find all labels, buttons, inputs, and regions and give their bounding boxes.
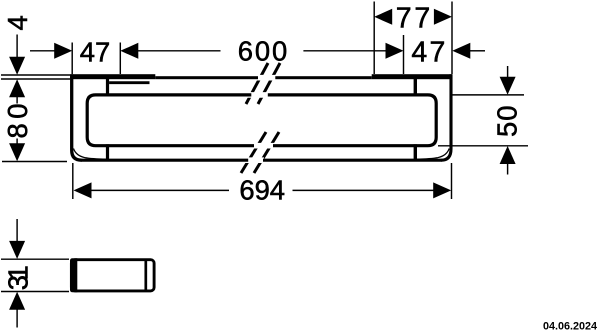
- extension line x403 (47 right): [403, 35, 405, 74]
- white corridor top bar: [254, 75, 276, 81]
- break slash bottom 2: [254, 132, 279, 173]
- side view outline: [71, 260, 154, 291]
- white corridor inner top: [247, 92, 269, 98]
- right bracket lower: [414, 144, 417, 160]
- svg-text:47: 47: [80, 37, 110, 68]
- arrow 80 down: [9, 143, 25, 161]
- dim line 47 right tail: [470, 50, 485, 52]
- svg-text:04.06.2024: 04.06.2024: [543, 320, 597, 332]
- extension line x452 (right end): [451, 2, 453, 75]
- right bracket upper: [414, 79, 417, 95]
- dim line 50 lower tail: [507, 163, 509, 174]
- extension line 694 left: [72, 163, 74, 199]
- svg-text:600: 600: [238, 35, 288, 66]
- right seam curve: [416, 149, 449, 160]
- top bar thin mid-left: [155, 76, 258, 79]
- top plate thick left: [70, 74, 155, 79]
- break slash top 1: [246, 63, 268, 104]
- svg-text:4: 4: [2, 15, 33, 30]
- extension line x374 (77 left): [373, 2, 375, 75]
- left seam curve: [74, 149, 107, 160]
- short ledge line left: [109, 81, 149, 84]
- dim line 31 lower tail: [16, 310, 18, 328]
- extension line 50 bottom: [438, 145, 528, 147]
- arrow 31 up: [9, 292, 25, 310]
- extension line 694 right: [451, 163, 453, 199]
- arrow 600 left: [120, 43, 138, 59]
- arrow 4 down: [9, 57, 25, 75]
- dim line 80 mid lower: [16, 139, 18, 145]
- extension line x120: [119, 43, 121, 75]
- extension line bottom left (80): [2, 161, 67, 163]
- dim line 600 left part: [138, 50, 221, 52]
- white corridor inner bottom: [250, 143, 274, 149]
- svg-text:31: 31: [3, 265, 34, 290]
- arrow 31 down: [9, 241, 25, 259]
- inner ring top edge right part: [268, 95, 436, 146]
- arrow 600 right: [386, 43, 404, 59]
- svg-text:50: 50: [491, 106, 522, 138]
- dim line 80 mid upper: [16, 97, 18, 104]
- arrow 50 down: [500, 77, 516, 95]
- arrow 694 right: [433, 182, 451, 198]
- extension line side view bottom: [1, 291, 69, 293]
- dim line 50 upper tail: [507, 66, 509, 78]
- arrow 694 left: [74, 182, 92, 198]
- inner ring top edge left part: [87, 95, 254, 146]
- side view seam line: [144, 260, 147, 291]
- outer bottom edge left part: [81, 159, 248, 162]
- side view wall plate thick left edge: [70, 258, 77, 292]
- dim line 47 left tail: [30, 50, 55, 52]
- outer right edge with corner: [442, 74, 452, 160]
- white corridor outer bottom: [244, 157, 264, 163]
- svg-text:694: 694: [239, 175, 285, 206]
- extension line side view top: [1, 258, 69, 260]
- arrow 77 left: [374, 9, 392, 25]
- outer bottom edge right part: [263, 159, 442, 162]
- arrow 4/80 up shared: [9, 79, 25, 97]
- dim line 694 left part: [90, 189, 229, 191]
- top bar thin mid-right: [275, 76, 371, 79]
- dim line 31 upper tail: [16, 219, 18, 242]
- top plate thick right: [372, 74, 453, 79]
- arrow 47L right: [54, 43, 72, 59]
- dim line 600 right part: [303, 50, 386, 52]
- extension line plate bottom left: [1, 78, 70, 80]
- dim line 694 right part: [293, 189, 434, 191]
- outer left edge with corner: [72, 74, 82, 160]
- arrow 47R left: [452, 43, 470, 59]
- break slash bottom 1: [241, 132, 266, 173]
- left bracket lower: [106, 144, 109, 161]
- extension line 50 top: [453, 94, 525, 96]
- arrow 77 right: [434, 9, 452, 25]
- dim line 4 upper: [16, 35, 18, 59]
- extension line x72 top: [71, 43, 73, 75]
- extension line plate top left: [1, 74, 70, 76]
- left bracket upper: [106, 79, 109, 95]
- break slash top 2: [258, 63, 280, 104]
- arrow 50 up: [500, 146, 516, 164]
